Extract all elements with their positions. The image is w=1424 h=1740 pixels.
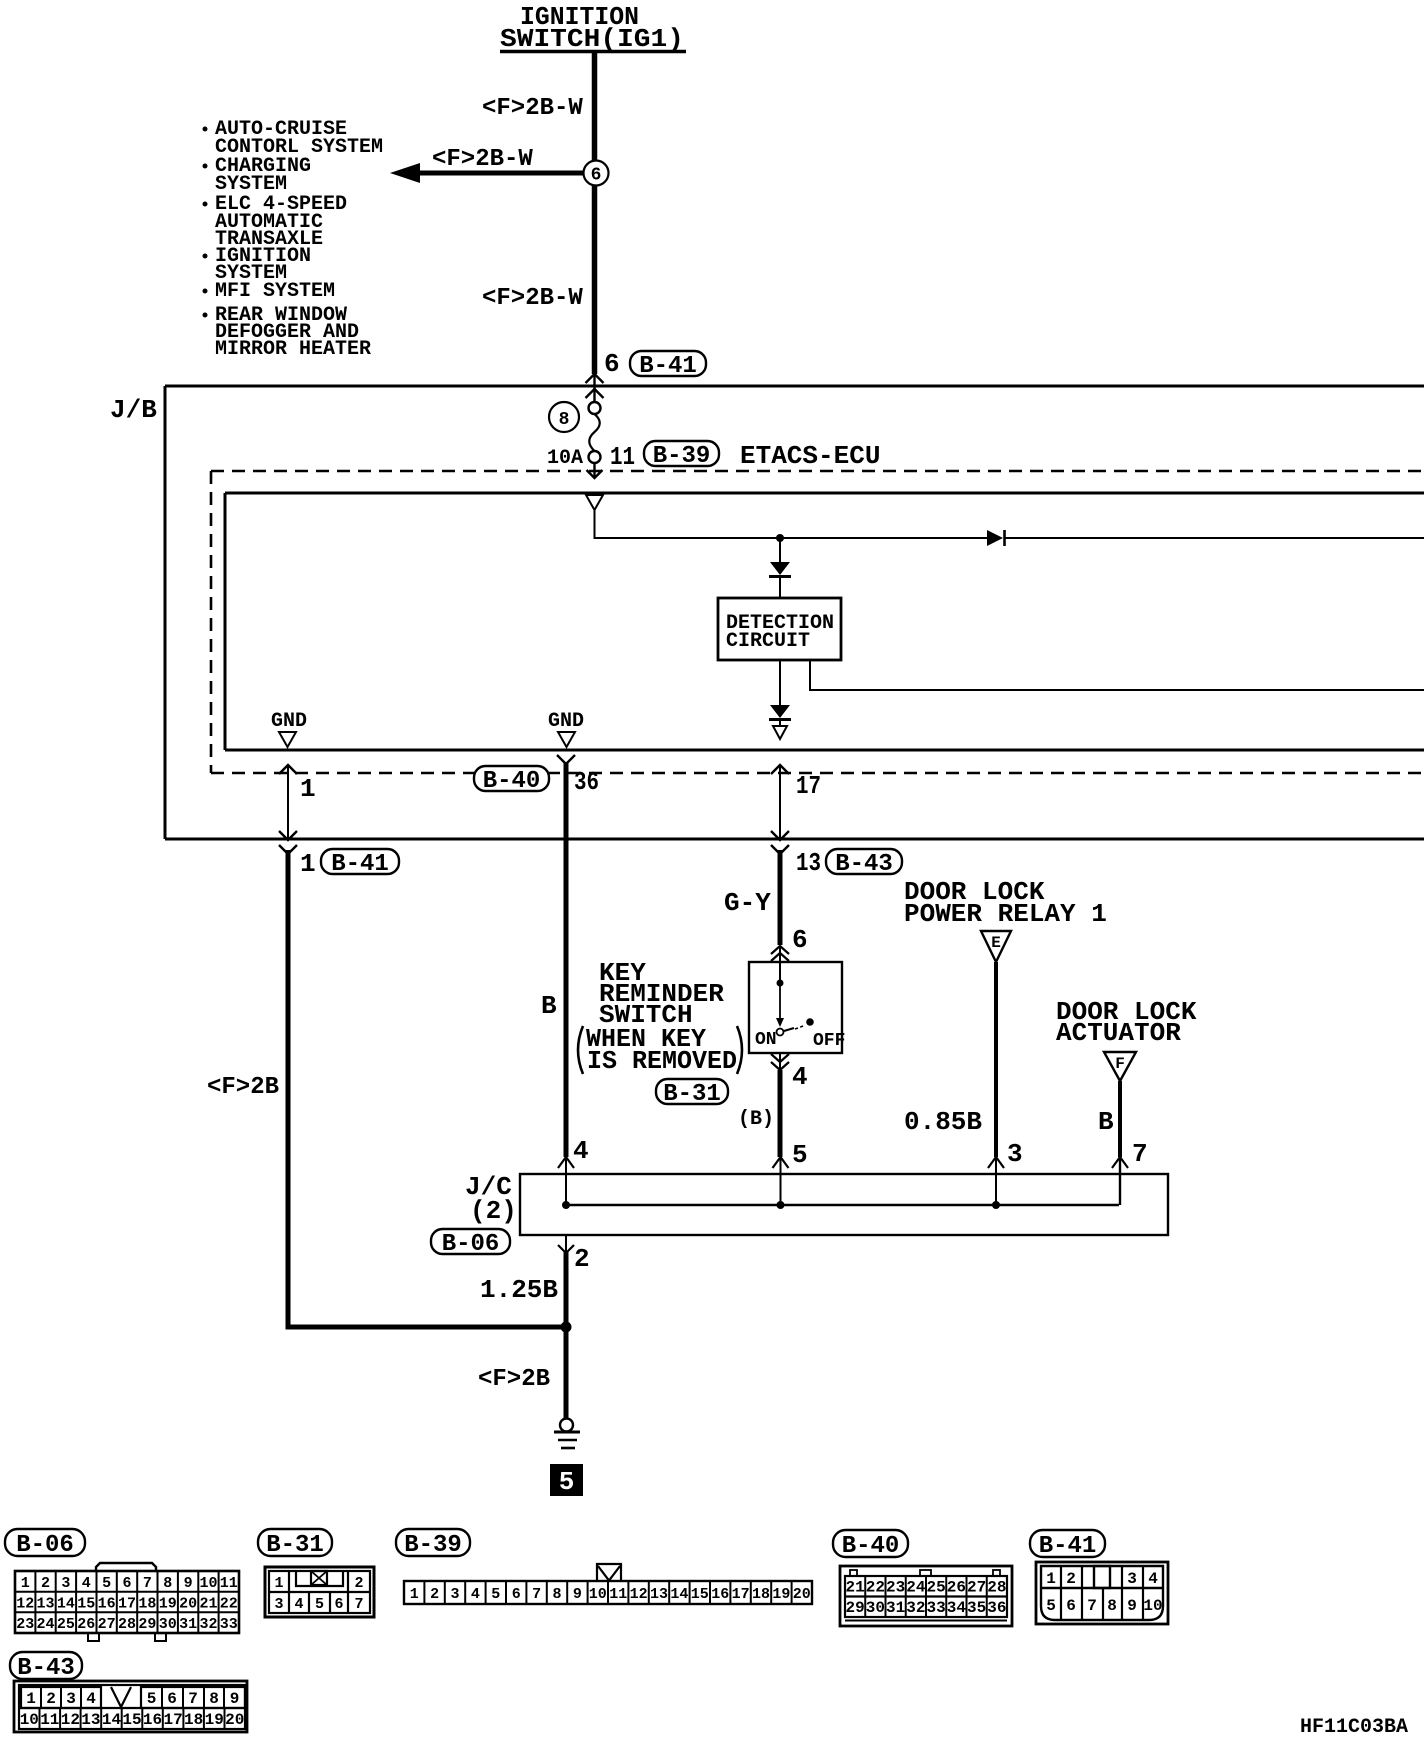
- svg-text:27: 27: [98, 1616, 116, 1633]
- svg-text:29: 29: [138, 1616, 156, 1633]
- svg-text:3: 3: [61, 1575, 70, 1592]
- svg-text:28: 28: [118, 1616, 136, 1633]
- svg-text:J/B: J/B: [110, 395, 157, 425]
- svg-text:11: 11: [40, 1711, 59, 1729]
- svg-text:20: 20: [179, 1596, 197, 1613]
- svg-text:E: E: [991, 934, 1001, 952]
- svg-text:B-41: B-41: [1039, 1533, 1097, 1560]
- svg-text:33: 33: [220, 1616, 238, 1633]
- svg-text:17: 17: [163, 1711, 182, 1729]
- svg-text:9: 9: [1127, 1597, 1137, 1615]
- svg-text:7: 7: [1132, 1139, 1148, 1169]
- svg-text:20: 20: [225, 1711, 244, 1729]
- svg-text:16: 16: [143, 1711, 162, 1729]
- svg-text:14: 14: [102, 1711, 122, 1729]
- svg-text:21: 21: [199, 1596, 217, 1613]
- svg-text:OFF: OFF: [813, 1031, 845, 1051]
- svg-text:1: 1: [300, 849, 316, 879]
- svg-text:6: 6: [122, 1575, 131, 1592]
- svg-text:8: 8: [559, 410, 570, 430]
- svg-text:12: 12: [630, 1586, 648, 1603]
- svg-text:(B): (B): [738, 1108, 774, 1131]
- svg-text:2: 2: [46, 1690, 56, 1708]
- svg-text:4: 4: [1148, 1570, 1158, 1588]
- svg-text:6: 6: [334, 1596, 343, 1613]
- svg-text:14: 14: [57, 1596, 75, 1613]
- svg-text:18: 18: [184, 1711, 203, 1729]
- svg-text:4: 4: [82, 1575, 91, 1592]
- svg-text:28: 28: [987, 1579, 1006, 1597]
- svg-text:11: 11: [609, 1586, 627, 1603]
- svg-text:ON: ON: [755, 1030, 777, 1050]
- svg-text:3: 3: [66, 1690, 76, 1708]
- svg-text:10: 10: [20, 1711, 39, 1729]
- svg-text:6: 6: [792, 925, 808, 955]
- svg-text:2: 2: [430, 1586, 439, 1603]
- svg-text:6: 6: [167, 1690, 177, 1708]
- svg-text:36: 36: [987, 1599, 1006, 1617]
- svg-text:1: 1: [21, 1575, 30, 1592]
- svg-text:16: 16: [98, 1596, 116, 1613]
- svg-text:2: 2: [354, 1575, 363, 1592]
- svg-text:17: 17: [796, 771, 821, 801]
- svg-text:1.25B: 1.25B: [480, 1275, 558, 1305]
- svg-text:GND: GND: [548, 710, 584, 733]
- svg-text:14: 14: [670, 1586, 688, 1603]
- svg-text:23: 23: [16, 1616, 34, 1633]
- svg-text:B-31: B-31: [663, 1081, 721, 1108]
- svg-text:23: 23: [886, 1579, 905, 1597]
- svg-text:15: 15: [691, 1586, 709, 1603]
- svg-text:30: 30: [159, 1616, 177, 1633]
- svg-text:MFI SYSTEM: MFI SYSTEM: [215, 280, 335, 303]
- svg-text:5: 5: [147, 1690, 157, 1708]
- svg-text:B-41: B-41: [331, 851, 389, 878]
- svg-text:9: 9: [184, 1575, 193, 1592]
- svg-text:GND: GND: [271, 710, 307, 733]
- svg-text:8: 8: [552, 1586, 561, 1603]
- svg-text:19: 19: [159, 1596, 177, 1613]
- svg-text:1: 1: [26, 1690, 36, 1708]
- svg-text:13: 13: [796, 848, 821, 878]
- svg-text:22: 22: [866, 1579, 885, 1597]
- svg-text:13: 13: [81, 1711, 100, 1729]
- svg-text:32: 32: [199, 1616, 217, 1633]
- svg-text:10: 10: [199, 1575, 217, 1592]
- svg-text:4: 4: [86, 1690, 96, 1708]
- svg-text:ETACS-ECU: ETACS-ECU: [740, 441, 880, 471]
- svg-text:24: 24: [36, 1616, 54, 1633]
- svg-text:POWER RELAY 1: POWER RELAY 1: [904, 899, 1107, 929]
- svg-text:5: 5: [559, 1467, 575, 1497]
- svg-text:31: 31: [886, 1599, 905, 1617]
- svg-text:9: 9: [573, 1586, 582, 1603]
- svg-text:13: 13: [650, 1586, 668, 1603]
- svg-text:B-41: B-41: [639, 353, 697, 380]
- svg-text:15: 15: [77, 1596, 95, 1613]
- svg-text:1: 1: [300, 774, 316, 804]
- svg-text:B-43: B-43: [17, 1655, 75, 1682]
- svg-text:3: 3: [450, 1586, 459, 1603]
- svg-text:4: 4: [471, 1586, 480, 1603]
- svg-text:7: 7: [354, 1596, 363, 1613]
- svg-text:18: 18: [752, 1586, 770, 1603]
- svg-text:<F>2B-W: <F>2B-W: [482, 95, 583, 122]
- svg-text:2: 2: [1066, 1570, 1076, 1588]
- svg-text:26: 26: [77, 1616, 95, 1633]
- svg-text:4: 4: [294, 1596, 303, 1613]
- svg-text:17: 17: [118, 1596, 136, 1613]
- svg-text:19: 19: [772, 1586, 790, 1603]
- svg-text:6: 6: [604, 349, 620, 379]
- svg-text:0.85B: 0.85B: [904, 1107, 982, 1137]
- svg-text:IS REMOVED: IS REMOVED: [587, 1046, 737, 1076]
- svg-text:2: 2: [574, 1244, 590, 1274]
- svg-text:32: 32: [906, 1599, 925, 1617]
- svg-text:13: 13: [36, 1596, 54, 1613]
- svg-text:B-39: B-39: [404, 1532, 462, 1559]
- svg-text:B-40: B-40: [483, 768, 541, 795]
- svg-text:7: 7: [532, 1586, 541, 1603]
- svg-text:15: 15: [122, 1711, 141, 1729]
- svg-text:CIRCUIT: CIRCUIT: [726, 630, 810, 653]
- svg-text:<F>2B: <F>2B: [207, 1074, 279, 1101]
- svg-text:7: 7: [143, 1575, 152, 1592]
- svg-text:9: 9: [230, 1690, 240, 1708]
- svg-text:<F>2B-W: <F>2B-W: [482, 285, 583, 312]
- svg-text:B-06: B-06: [16, 1532, 74, 1559]
- svg-text:G-Y: G-Y: [724, 888, 771, 918]
- svg-text:18: 18: [138, 1596, 156, 1613]
- svg-text:F: F: [1115, 1055, 1125, 1073]
- svg-text:22: 22: [220, 1596, 238, 1613]
- svg-text:5: 5: [315, 1596, 324, 1613]
- svg-text:<F>2B: <F>2B: [478, 1366, 550, 1393]
- svg-text:8: 8: [1107, 1597, 1117, 1615]
- svg-text:B: B: [541, 991, 557, 1021]
- svg-text:19: 19: [205, 1711, 224, 1729]
- svg-text:<F>2B-W: <F>2B-W: [432, 146, 533, 173]
- svg-text:17: 17: [732, 1586, 750, 1603]
- svg-text:B-39: B-39: [653, 443, 711, 470]
- svg-text:B-43: B-43: [835, 851, 893, 878]
- svg-text:3: 3: [1127, 1570, 1137, 1588]
- svg-text:16: 16: [711, 1586, 729, 1603]
- svg-text:1: 1: [274, 1575, 283, 1592]
- svg-text:8: 8: [209, 1690, 219, 1708]
- svg-text:31: 31: [179, 1616, 197, 1633]
- svg-text:4: 4: [792, 1062, 808, 1092]
- svg-text:10: 10: [589, 1586, 607, 1603]
- svg-text:MIRROR HEATER: MIRROR HEATER: [215, 338, 371, 361]
- svg-text:6: 6: [591, 166, 602, 186]
- svg-text:26: 26: [947, 1579, 966, 1597]
- svg-text:1: 1: [1046, 1570, 1056, 1588]
- svg-text:34: 34: [947, 1599, 967, 1617]
- svg-text:6: 6: [1066, 1597, 1076, 1615]
- svg-text:3: 3: [1007, 1139, 1023, 1169]
- svg-text:(2): (2): [470, 1196, 517, 1226]
- svg-text:25: 25: [57, 1616, 75, 1633]
- svg-text:11: 11: [220, 1575, 238, 1592]
- svg-text:5: 5: [102, 1575, 111, 1592]
- svg-text:29: 29: [845, 1599, 864, 1617]
- svg-text:6: 6: [512, 1586, 521, 1603]
- svg-text:24: 24: [906, 1579, 926, 1597]
- svg-text:5: 5: [491, 1586, 500, 1603]
- svg-text:33: 33: [926, 1599, 945, 1617]
- svg-text:8: 8: [163, 1575, 172, 1592]
- svg-text:10: 10: [1143, 1597, 1162, 1615]
- svg-text:2: 2: [41, 1575, 50, 1592]
- svg-text:5: 5: [792, 1140, 808, 1170]
- svg-text:B-06: B-06: [442, 1231, 500, 1258]
- svg-text:10A: 10A: [547, 447, 583, 470]
- svg-text:5: 5: [1046, 1597, 1056, 1615]
- svg-text:35: 35: [967, 1599, 986, 1617]
- svg-text:12: 12: [16, 1596, 34, 1613]
- svg-text:HF11C03BA: HF11C03BA: [1300, 1716, 1408, 1739]
- svg-text:36: 36: [574, 767, 599, 797]
- svg-text:11: 11: [610, 442, 635, 472]
- svg-text:ACTUATOR: ACTUATOR: [1056, 1018, 1181, 1048]
- svg-text:27: 27: [967, 1579, 986, 1597]
- svg-text:20: 20: [793, 1586, 811, 1603]
- svg-text:12: 12: [61, 1711, 80, 1729]
- svg-text:SWITCH(IG1): SWITCH(IG1): [500, 24, 684, 54]
- svg-text:7: 7: [1087, 1597, 1097, 1615]
- svg-text:3: 3: [274, 1596, 283, 1613]
- svg-text:B-40: B-40: [842, 1533, 900, 1560]
- svg-text:B-31: B-31: [266, 1532, 324, 1559]
- svg-text:21: 21: [845, 1579, 864, 1597]
- svg-text:4: 4: [573, 1136, 589, 1166]
- svg-text:25: 25: [926, 1579, 945, 1597]
- svg-text:1: 1: [410, 1586, 419, 1603]
- svg-text:7: 7: [188, 1690, 198, 1708]
- svg-text:30: 30: [866, 1599, 885, 1617]
- svg-text:B: B: [1098, 1107, 1114, 1137]
